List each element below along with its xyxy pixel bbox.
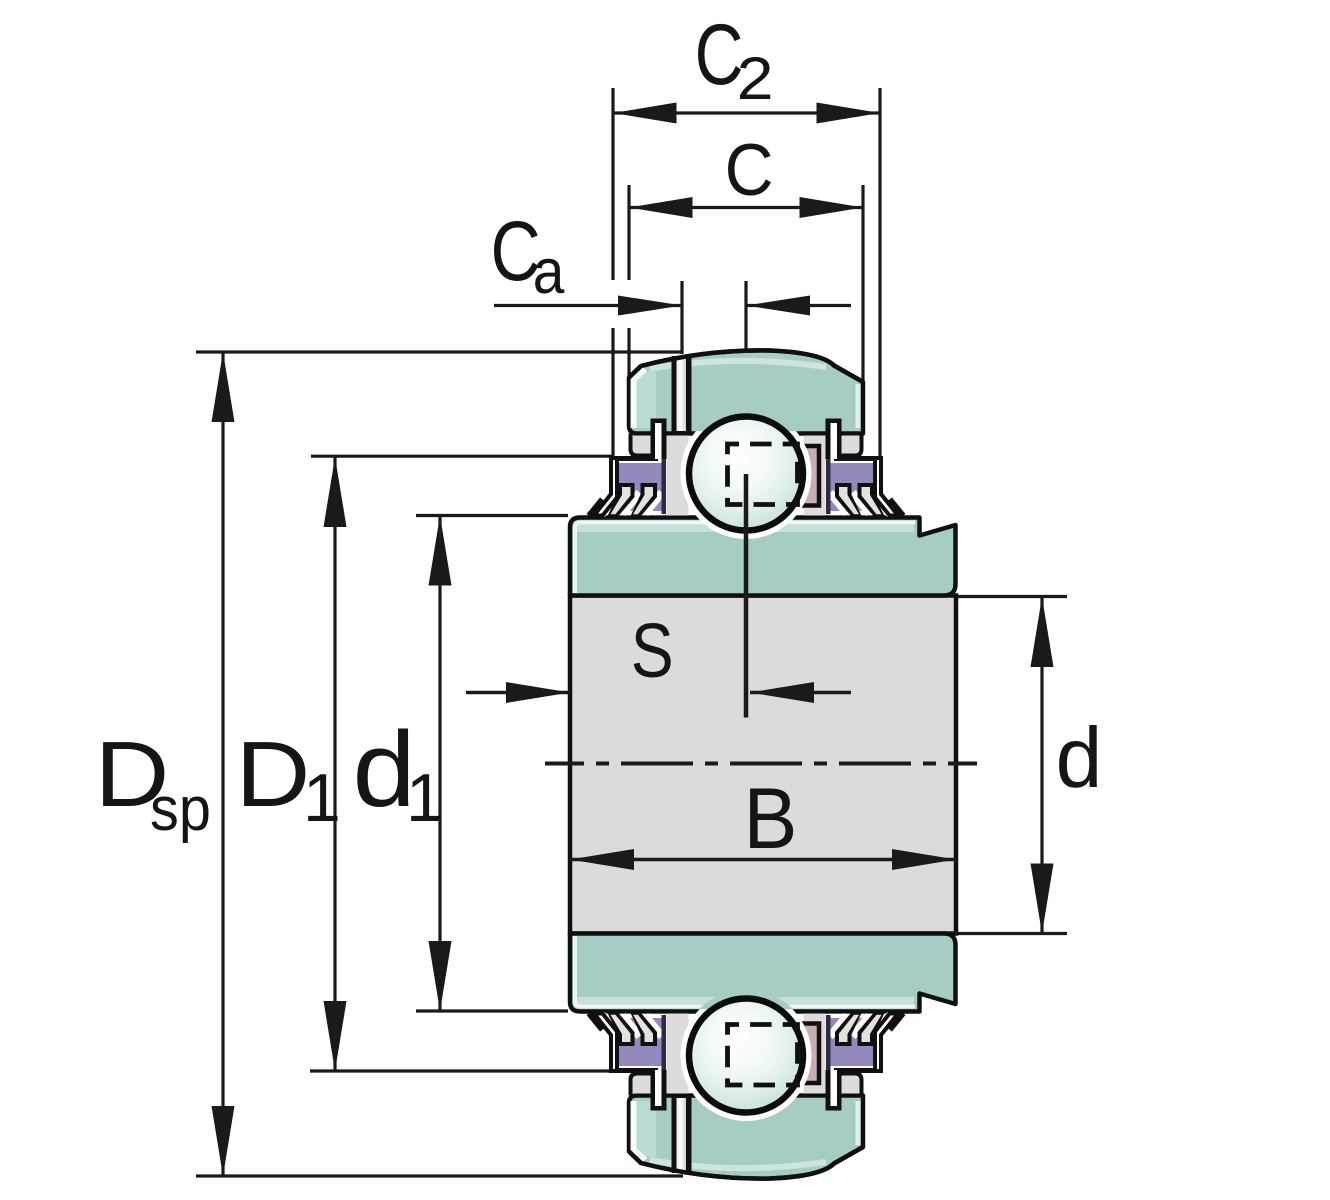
top half assembly: outer ring, seals, raceways	[589, 350, 904, 539]
extension line C2 left upper	[611, 88, 614, 280]
extension line D1 bottom	[310, 1069, 612, 1072]
seal pocket fill	[632, 436, 651, 454]
seal base white strip	[596, 511, 663, 515]
svg-text:d: d	[1056, 711, 1103, 806]
arrowhead C2 left	[613, 103, 677, 124]
arrowhead Dsp top	[212, 352, 235, 422]
extension line Dsp bottom	[196, 1174, 683, 1177]
arrowhead C left	[629, 197, 693, 218]
outer ring crown outline restroke	[629, 350, 863, 382]
dimension line S right part	[750, 691, 851, 694]
svg-text:a: a	[533, 237, 565, 307]
halo cover above top ball	[680, 408, 812, 540]
seal gap band 2	[623, 493, 640, 514]
extension line C left upper	[627, 185, 630, 280]
outer ring crown highlight	[650, 361, 826, 369]
right seal assembly (mirror of left)	[804, 419, 904, 517]
raceway shoulder block (pink)	[801, 446, 820, 506]
flinger shield	[594, 458, 617, 516]
outer ring left face highlight	[634, 369, 646, 428]
dimension line D1 vertical	[333, 457, 336, 1071]
arrowhead D1 top	[324, 457, 347, 527]
arrowhead D1 bottom	[324, 1001, 347, 1071]
inner ring bottom collar (mirror of top collar)	[570, 934, 956, 1012]
extension line d top	[948, 595, 1067, 598]
shaft centerline dash-dot	[545, 762, 977, 766]
seal gap band 1	[601, 493, 618, 514]
dimension line B	[570, 858, 956, 861]
dimension line d1 vertical	[438, 516, 441, 1012]
dashed section box top ball	[728, 444, 798, 505]
lubrication groove stripe core	[677, 359, 687, 431]
outer ring left inner shading	[636, 372, 656, 428]
svg-text:B: B	[744, 771, 798, 867]
extension line d1 top	[416, 514, 568, 517]
arrowhead Ca right	[746, 296, 810, 316]
outer ring right face highlight	[856, 384, 861, 428]
outer ring (teal, spherical OD)	[629, 350, 863, 433]
arrowhead B right	[892, 849, 956, 870]
lubrication groove stripe borders	[672, 356, 692, 434]
left seal assembly	[589, 419, 689, 517]
dimension line Dsp vertical	[221, 352, 224, 1176]
bottom half assembly (vertical mirror of top)	[589, 990, 904, 1179]
bottom ball	[689, 999, 803, 1113]
flinger lower lip	[589, 499, 603, 516]
extension line C2 left lower	[611, 328, 614, 457]
seal carrier sheet	[662, 458, 667, 514]
arrowhead C2 right	[817, 103, 881, 124]
top ball	[689, 417, 803, 531]
seal elastomer block	[616, 463, 663, 511]
seal slot top line	[611, 456, 658, 461]
dimension line C2	[613, 111, 880, 114]
arrowhead S right	[750, 682, 814, 703]
seal anchor bar	[651, 419, 667, 460]
extension line C left lower	[627, 328, 630, 377]
seal pocket outline	[631, 434, 651, 456]
extension line C right	[861, 185, 864, 382]
arrowhead d bottom	[1031, 864, 1054, 934]
arrowhead Ca left	[618, 296, 682, 316]
seal lip finger 1 outline	[608, 483, 635, 516]
inner ring sleeve (gray)	[570, 596, 956, 934]
dimension line Ca left part	[494, 304, 682, 307]
inner race column	[667, 436, 689, 516]
dimension line S left part	[466, 691, 570, 694]
ball clearance halo	[681, 408, 812, 539]
extension line Ca left	[680, 281, 683, 354]
dashed section box bottom ball	[728, 1025, 798, 1086]
arrowhead d top	[1031, 597, 1054, 667]
seal gap band 3	[645, 493, 662, 514]
seal lip finger 2 outline	[631, 483, 658, 516]
halo cover above bottom ball	[680, 990, 812, 1122]
extension line d1 bottom	[416, 1009, 568, 1012]
seal lip finger 1 core	[611, 487, 631, 514]
arrowhead d1 bottom	[429, 941, 452, 1011]
svg-text:D: D	[236, 722, 311, 826]
extension line Ca right	[744, 281, 747, 351]
extension line d bottom	[948, 932, 1067, 935]
svg-text:1: 1	[303, 760, 341, 836]
arrowhead S left	[506, 682, 570, 703]
arrowhead B left	[570, 849, 634, 870]
seal lip finger 2 core	[633, 487, 653, 514]
svg-text:2: 2	[737, 45, 774, 112]
extension line C2 right	[878, 88, 881, 457]
ball center reference line	[744, 474, 749, 718]
extension line Dsp top	[196, 350, 683, 353]
svg-text:1: 1	[406, 760, 444, 836]
svg-text:S: S	[631, 608, 674, 694]
arrowhead C right	[800, 197, 864, 218]
arrowhead Dsp bottom	[212, 1106, 235, 1176]
dimension line d vertical	[1040, 597, 1043, 934]
arrowhead d1 top	[429, 516, 452, 586]
svg-text:sp: sp	[150, 775, 211, 844]
inner ring top collar (teal, with locating notch)	[570, 518, 956, 596]
extension line D1 top	[311, 455, 612, 458]
seal anchor bar slot	[655, 423, 662, 459]
svg-text:C: C	[725, 130, 774, 211]
dimension line C	[629, 206, 863, 209]
dimension line Ca right part	[746, 304, 851, 307]
